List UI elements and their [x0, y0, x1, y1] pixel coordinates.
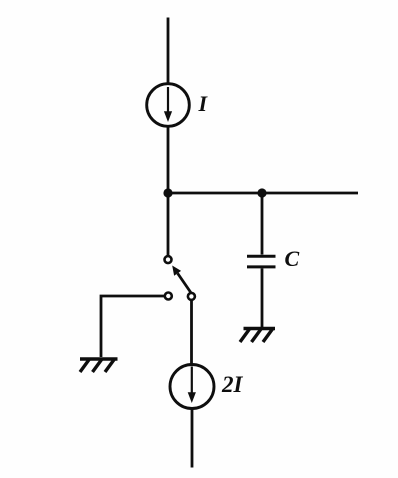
- node A: [163, 188, 172, 197]
- wire bottom: [191, 409, 194, 468]
- svg-text:2I: 2I: [221, 372, 244, 397]
- ground right: [240, 329, 275, 343]
- wire capacitor to ground: [261, 268, 264, 327]
- svg-text:I: I: [198, 91, 209, 116]
- wire node B to capacitor: [261, 193, 264, 255]
- wire top feed: [167, 18, 170, 85]
- wire node to switch: [167, 193, 170, 256]
- current source I: [147, 84, 190, 127]
- svg-text:C: C: [285, 246, 300, 271]
- capacitor C: [247, 256, 276, 267]
- current source 2I: [170, 365, 214, 409]
- switch S1: [165, 256, 195, 300]
- node B: [257, 188, 266, 197]
- wire horizontal bus: [168, 192, 358, 195]
- wire source I to node: [167, 127, 170, 194]
- ground left: [80, 359, 118, 372]
- wire switch left throw to ground: [101, 296, 165, 357]
- wire switch pole to source 2I: [190, 300, 193, 364]
